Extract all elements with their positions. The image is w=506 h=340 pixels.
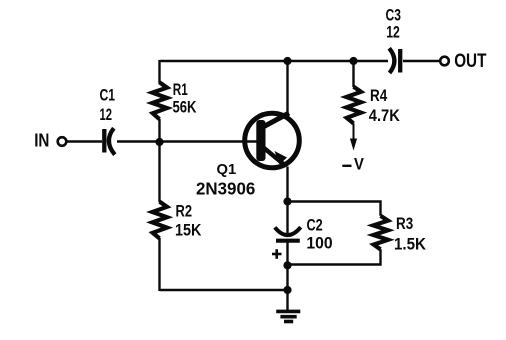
- capacitor C2: [275, 227, 301, 241]
- label -V: [342, 156, 364, 174]
- svg-text:2N3906: 2N3906: [196, 179, 256, 199]
- svg-text:R2: R2: [176, 203, 193, 221]
- resistor R1: [152, 82, 167, 119]
- label 1.5K: [394, 235, 426, 253]
- svg-text:R4: R4: [370, 87, 388, 105]
- label + (C2 polarity): [272, 249, 282, 259]
- label C1: [100, 87, 116, 105]
- label 15K: [175, 221, 201, 239]
- svg-text:R3: R3: [396, 215, 413, 233]
- label R1: [173, 81, 188, 99]
- wire: Q1 emitter down to node: [286, 167, 288, 203]
- ground: [276, 311, 300, 321]
- label 56K: [173, 99, 197, 117]
- wire: C2 bottom plate down to ground: [286, 242, 288, 311]
- wire: left vertical (R1/R2 branch): [158, 60, 160, 291]
- node: R4-rail junction: [349, 57, 357, 65]
- label 12 (C1 value): [100, 106, 113, 124]
- svg-text:OUT: OUT: [454, 51, 487, 72]
- label OUT: [454, 51, 487, 72]
- svg-text:100: 100: [306, 235, 332, 253]
- svg-text:C2: C2: [307, 217, 323, 235]
- label R4: [370, 87, 388, 105]
- wire: top rail to R4: [352, 61, 354, 87]
- label R3: [396, 215, 413, 233]
- wire: R3 bottom to C2 bottom node: [288, 249, 381, 264]
- svg-text:12: 12: [386, 23, 400, 41]
- wire: node to C2 top plate: [286, 202, 288, 234]
- OUT terminal: [440, 57, 449, 66]
- svg-text:1.5K: 1.5K: [394, 235, 426, 253]
- IN terminal: [58, 137, 67, 146]
- wire: C1 to base node to Q1 base: [117, 140, 257, 142]
- node: base junction: [155, 138, 163, 146]
- capacitor C3: [389, 48, 400, 73]
- wire: IN to C1: [67, 140, 103, 142]
- svg-text:56K: 56K: [173, 99, 197, 117]
- node: emitter junction: [283, 197, 291, 205]
- label 2N3906: [196, 179, 256, 199]
- label C2: [307, 217, 323, 235]
- label 12 (C3 value): [386, 23, 400, 41]
- svg-text:V: V: [354, 156, 364, 174]
- resistor R4: [346, 87, 361, 124]
- wire: bottom rail (R2 to ground node): [160, 289, 288, 291]
- label 4.7K: [369, 107, 400, 125]
- svg-text:4.7K: 4.7K: [369, 107, 400, 125]
- label Q1: [217, 161, 237, 178]
- label IN: [34, 131, 49, 151]
- node: ground rail junction: [283, 286, 291, 294]
- wire: Q1 collector to top rail: [286, 61, 288, 114]
- label R2: [176, 203, 193, 221]
- label C3: [386, 6, 401, 24]
- wire: R4 to -V arrow: [350, 123, 357, 150]
- resistor R3: [373, 216, 388, 250]
- wire: emitter node to R3 top: [288, 202, 381, 216]
- svg-text:C3: C3: [386, 6, 401, 24]
- node: C2/R3 bottom junction: [283, 261, 291, 269]
- capacitor C1: [104, 128, 115, 154]
- svg-text:R1: R1: [173, 81, 188, 99]
- resistor R2: [152, 202, 167, 239]
- svg-text:C1: C1: [100, 87, 116, 105]
- svg-text:12: 12: [100, 106, 113, 124]
- label 100: [306, 235, 332, 253]
- svg-text:15K: 15K: [175, 221, 201, 239]
- wire: top supply rail: [160, 60, 389, 62]
- wire: C3 to OUT terminal: [403, 60, 440, 62]
- transistor Q1: [245, 113, 300, 168]
- node: collector-rail junction: [283, 57, 291, 65]
- svg-text:Q1: Q1: [217, 161, 237, 178]
- svg-text:IN: IN: [34, 131, 49, 151]
